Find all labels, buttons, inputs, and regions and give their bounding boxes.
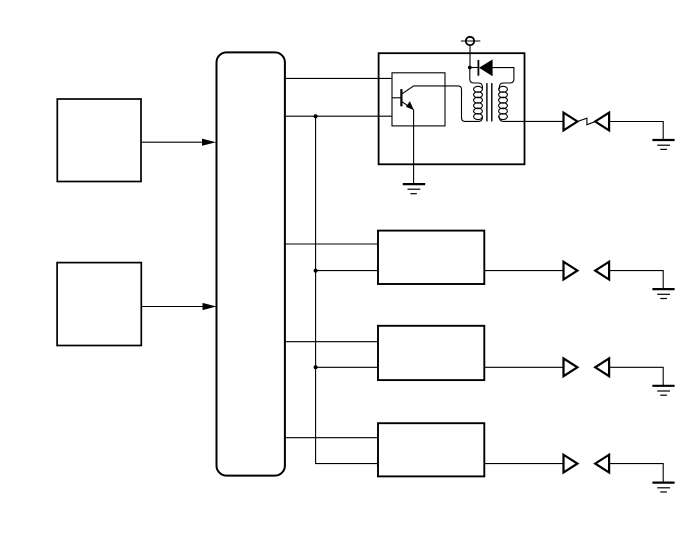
row1 wire to ground (609, 122, 663, 141)
inner transistor box (392, 73, 445, 126)
row3 wire to ground (609, 367, 663, 386)
junction dot row3 (314, 365, 318, 369)
arrow from block 1 (141, 139, 216, 146)
supply terminal (461, 37, 480, 68)
junction dot row1 (314, 114, 318, 118)
input block 2 (57, 263, 141, 346)
channel driver box 4 (378, 423, 484, 476)
wire row3 upper (285, 341, 378, 343)
emitter wire to ground (413, 110, 415, 184)
row1 output wire (499, 117, 563, 122)
wire row1 lower (285, 115, 392, 117)
row3 output wire (484, 366, 563, 368)
row4 wire to ground (609, 464, 663, 483)
row2 receiver triangle (595, 262, 609, 280)
row4 output wire (484, 463, 563, 465)
channel driver box 3 (378, 326, 484, 380)
row2 wire to ground (609, 271, 663, 290)
row2 ground (652, 289, 674, 298)
row4 receiver triangle (595, 455, 609, 473)
channel driver box 2 (378, 231, 484, 284)
main controller (rounded rectangle) (217, 52, 285, 475)
junction dot row2 (314, 269, 318, 273)
transistor Q1 (392, 89, 414, 110)
input block 1 (57, 99, 141, 182)
row3 ground (652, 386, 674, 395)
wire row1 upper (285, 77, 392, 79)
wire row2 upper (285, 243, 378, 245)
row1 driver triangle (564, 113, 578, 131)
row1 receiver triangle (595, 113, 609, 131)
row2 output wire (484, 270, 563, 272)
row3 receiver triangle (595, 358, 609, 376)
row1 ground (652, 140, 674, 149)
collector wire to transformer primary (401, 86, 482, 122)
transformer T1 primary coil (474, 86, 483, 119)
transformer T1 core (487, 83, 492, 121)
ground under module (403, 184, 425, 194)
diode D1 (470, 59, 493, 76)
arrow from block 2 (141, 303, 216, 310)
wire row2 lower (316, 270, 378, 272)
row2 driver triangle (564, 262, 578, 280)
row1 link zigzag (577, 118, 595, 125)
diode anode wire to secondary top (493, 68, 514, 90)
row4 ground (652, 483, 674, 492)
row3 driver triangle (564, 358, 578, 376)
wire row3 lower (316, 366, 378, 368)
vertical bus wire (316, 116, 378, 463)
wire row4 upper (285, 437, 378, 439)
transformer T1 secondary coil (499, 86, 508, 119)
row4 driver triangle (564, 455, 578, 473)
primary top wire (470, 68, 483, 90)
isolated driver module box (379, 53, 525, 164)
junction dot at diode (468, 66, 472, 70)
